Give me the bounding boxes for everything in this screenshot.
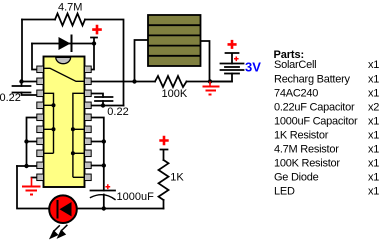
svg-text:74AC240: 74AC240 <box>274 87 318 99</box>
svg-text:SolarCell: SolarCell <box>274 59 316 71</box>
svg-text:0.22: 0.22 <box>107 106 128 118</box>
svg-text:0.22: 0.22 <box>0 92 21 104</box>
svg-text:x1: x1 <box>368 130 379 142</box>
svg-text:x1: x1 <box>368 172 379 184</box>
svg-text:0.22uF Capacitor: 0.22uF Capacitor <box>274 101 355 113</box>
svg-text:x1: x1 <box>368 115 379 127</box>
svg-text:4.7M Resistor: 4.7M Resistor <box>274 144 339 156</box>
svg-text:1K Resistor: 1K Resistor <box>274 130 329 142</box>
svg-text:x1: x1 <box>368 87 379 99</box>
svg-text:x1: x1 <box>368 144 379 156</box>
svg-text:100K Resistor: 100K Resistor <box>274 158 340 170</box>
svg-text:1K: 1K <box>170 172 184 184</box>
svg-text:1000uF: 1000uF <box>117 191 155 203</box>
svg-text:LED: LED <box>274 186 295 198</box>
svg-text:x1: x1 <box>368 59 379 71</box>
svg-text:3V: 3V <box>245 60 261 75</box>
svg-text:x1: x1 <box>368 186 379 198</box>
svg-text:1000uF Capacitor: 1000uF Capacitor <box>274 115 358 127</box>
svg-text:4.7M: 4.7M <box>58 2 82 14</box>
svg-text:x1: x1 <box>368 158 379 170</box>
svg-text:100K: 100K <box>162 88 188 100</box>
svg-text:x1: x1 <box>368 73 379 85</box>
svg-text:Recharg Battery: Recharg Battery <box>274 73 350 85</box>
svg-text:Ge Diode: Ge Diode <box>274 172 319 184</box>
svg-text:x2: x2 <box>368 101 379 113</box>
